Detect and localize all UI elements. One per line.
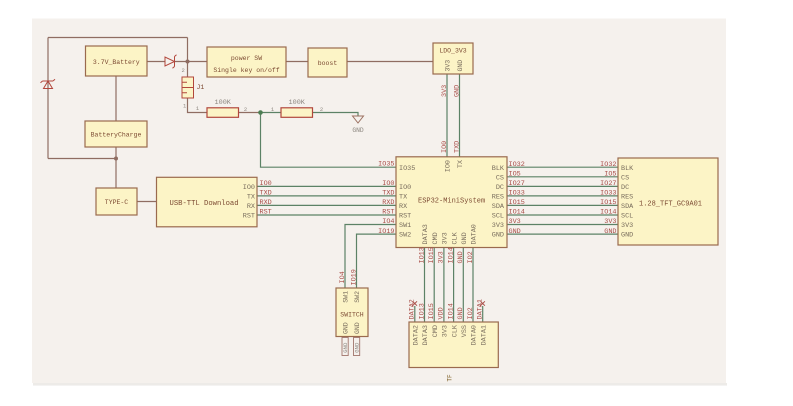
- svg-text:CMD: CMD: [432, 325, 440, 337]
- svg-text:IO0: IO0: [441, 141, 449, 153]
- svg-text:GND: GND: [352, 127, 364, 134]
- global label GND below SWITCH pin 2: [354, 338, 361, 356]
- svg-text:2: 2: [182, 67, 185, 74]
- svg-text:IO5: IO5: [604, 171, 616, 179]
- block TYPE-C: [96, 188, 137, 215]
- svg-text:GND: GND: [457, 307, 465, 319]
- svg-text:IO0: IO0: [260, 180, 272, 188]
- wire net RST: [257, 214, 396, 216]
- svg-text:CS: CS: [621, 174, 629, 182]
- svg-text:BLK: BLK: [621, 165, 634, 173]
- svg-text:TYPE-C: TYPE-C: [105, 199, 129, 206]
- svg-text:TX: TX: [399, 194, 407, 202]
- svg-text:DATA1: DATA1: [480, 325, 488, 345]
- wire boost to LDO_3V3: [347, 61, 433, 63]
- no-connect X at TF DATA2: [413, 301, 417, 305]
- svg-text:IO35: IO35: [378, 161, 394, 169]
- svg-text:CMD: CMD: [432, 232, 440, 244]
- ground symbol: [353, 116, 364, 123]
- svg-text:Single key on/off: Single key on/off: [213, 67, 279, 74]
- svg-text:TXD: TXD: [454, 141, 462, 153]
- wire stub TF DATA2 no-connect: [414, 306, 416, 322]
- wire net GND ESP32 to TF: [462, 248, 464, 323]
- resistor R3: [281, 108, 313, 118]
- svg-text:IO15: IO15: [509, 199, 525, 207]
- diode D1 (zener, left): [41, 79, 56, 88]
- block 3.7V_Battery: [86, 46, 148, 76]
- wire net 3V3 ESP32 to TFT: [507, 224, 618, 226]
- svg-text:SWITCH: SWITCH: [340, 312, 364, 319]
- wire R2 to junction: [239, 112, 261, 114]
- wire J1 pin 1 to resistor R2: [188, 98, 208, 113]
- wire bottom of loop to charge net: [48, 158, 116, 160]
- diode D2 (battery output): [165, 55, 177, 69]
- svg-text:IO27: IO27: [600, 180, 616, 188]
- svg-text:2: 2: [320, 106, 323, 113]
- svg-text:IO13: IO13: [418, 303, 426, 319]
- svg-text:1.28_TFT_GC9A01: 1.28_TFT_GC9A01: [639, 201, 702, 209]
- junction at J1 top node: [186, 60, 190, 64]
- svg-text:RX: RX: [247, 203, 255, 211]
- svg-text:BLK: BLK: [492, 165, 505, 173]
- wire net IO14 ESP32 to TFT: [507, 214, 618, 216]
- wire top loop horizontal: [48, 37, 188, 39]
- svg-text:IO4: IO4: [382, 218, 394, 226]
- svg-text:IO27: IO27: [509, 180, 525, 188]
- svg-text:DATA3: DATA3: [422, 224, 430, 244]
- svg-text:IO13: IO13: [418, 247, 426, 263]
- svg-text:SW1: SW1: [399, 222, 411, 230]
- wire net IO32 ESP32 to TFT: [507, 166, 618, 168]
- svg-text:IO2: IO2: [467, 307, 475, 319]
- wire top loop down to J1 pin 2: [187, 38, 189, 78]
- wire net IO33 ESP32 to TFT: [507, 195, 618, 197]
- svg-text:2: 2: [244, 106, 247, 113]
- svg-text:GND: GND: [604, 228, 616, 236]
- svg-text:100K: 100K: [289, 99, 306, 107]
- block LDO_3V3: [433, 43, 473, 74]
- block BatteryCharge: [85, 121, 147, 147]
- svg-text:DATA0: DATA0: [471, 224, 479, 244]
- svg-text:IO4: IO4: [339, 271, 347, 283]
- wire power SW to boost: [286, 61, 308, 63]
- svg-text:ESP32-MiniSystem: ESP32-MiniSystem: [418, 197, 485, 205]
- svg-text:RST: RST: [399, 213, 411, 221]
- svg-text:CLK: CLK: [451, 231, 459, 244]
- svg-text:IO14: IO14: [447, 247, 455, 263]
- svg-text:IO35: IO35: [399, 165, 415, 173]
- block ESP32-MiniSystem U1: [396, 157, 507, 248]
- svg-text:GND: GND: [621, 232, 633, 240]
- svg-text:GND: GND: [457, 251, 465, 263]
- wire left vertical: [47, 38, 49, 159]
- svg-text:3V3: 3V3: [442, 325, 450, 337]
- svg-text:IO14: IO14: [600, 209, 616, 217]
- wire net GND ESP32 to TFT: [507, 233, 618, 235]
- wire net IO19 ESP32 SW2 to SWITCH: [357, 234, 397, 288]
- svg-text:SW2: SW2: [399, 232, 411, 240]
- wire net IO13 ESP32 to TF: [424, 248, 426, 323]
- wire BatteryCharge to TYPE-C: [115, 147, 117, 188]
- svg-text:GND: GND: [454, 85, 462, 97]
- wire net 3V3 LDO to ESP32: [446, 74, 448, 157]
- wire net IO15 ESP32 to TFT: [507, 204, 618, 206]
- svg-text:TX: TX: [247, 194, 255, 202]
- svg-text:RST: RST: [260, 209, 272, 217]
- svg-text:DATA1: DATA1: [477, 299, 485, 319]
- svg-text:SW1: SW1: [343, 291, 350, 303]
- svg-text:RES: RES: [621, 194, 633, 202]
- svg-text:IO5: IO5: [509, 171, 521, 179]
- svg-text:boost: boost: [318, 60, 338, 67]
- svg-text:power SW: power SW: [231, 55, 262, 62]
- svg-text:CS: CS: [496, 174, 504, 182]
- block TF card: [409, 322, 498, 368]
- svg-text:IO0: IO0: [445, 160, 453, 172]
- svg-text:SDA: SDA: [621, 203, 634, 211]
- no-connect X at TF DATA1: [481, 301, 485, 305]
- svg-text:IO0: IO0: [243, 184, 255, 192]
- svg-text:VSS: VSS: [461, 325, 469, 337]
- svg-text:SCL: SCL: [492, 213, 504, 221]
- svg-text:DATA3: DATA3: [422, 325, 430, 345]
- svg-text:GND: GND: [343, 322, 350, 334]
- svg-text:IO14: IO14: [509, 209, 525, 217]
- wire net RXD: [257, 204, 396, 206]
- svg-text:CLK: CLK: [451, 324, 459, 337]
- svg-text:TF: TF: [447, 374, 454, 382]
- svg-text:3V3: 3V3: [445, 60, 452, 72]
- svg-text:BatteryCharge: BatteryCharge: [91, 132, 142, 139]
- svg-text:100K: 100K: [215, 99, 232, 107]
- svg-text:3V3: 3V3: [621, 222, 633, 230]
- svg-text:GND: GND: [509, 228, 521, 236]
- svg-text:DC: DC: [621, 184, 629, 192]
- wire net IO27 ESP32 to TFT: [507, 185, 618, 187]
- svg-text:IO14: IO14: [447, 303, 455, 319]
- svg-text:RES: RES: [492, 194, 504, 202]
- svg-text:VDD: VDD: [438, 307, 446, 319]
- wire net IO4 ESP32 SW1 to SWITCH: [345, 225, 396, 289]
- block boost: [308, 48, 347, 77]
- svg-text:SCL: SCL: [621, 213, 633, 221]
- junction battery charge net: [114, 157, 118, 161]
- wire net IO14 ESP32 to TF: [453, 248, 455, 323]
- svg-text:3V3: 3V3: [438, 251, 446, 263]
- svg-text:SDA: SDA: [492, 203, 505, 211]
- wire stub TF DATA1 no-connect: [482, 306, 484, 322]
- wire R3 to GND: [313, 113, 359, 117]
- svg-text:3V3: 3V3: [492, 222, 504, 230]
- svg-text:IO33: IO33: [600, 190, 616, 198]
- svg-text:RX: RX: [399, 203, 407, 211]
- svg-text:IO32: IO32: [509, 161, 525, 169]
- svg-text:IO0: IO0: [382, 180, 394, 188]
- svg-text:RXD: RXD: [382, 199, 394, 207]
- svg-text:3.7V_Battery: 3.7V_Battery: [93, 59, 140, 66]
- svg-text:IO15: IO15: [600, 199, 616, 207]
- resistor R2: [207, 108, 239, 118]
- svg-text:RST: RST: [243, 213, 255, 221]
- svg-text:RXD: RXD: [260, 199, 272, 207]
- connector J1: [182, 77, 194, 98]
- svg-text:IO15: IO15: [428, 303, 436, 319]
- svg-text:GND: GND: [342, 342, 349, 353]
- svg-text:DATA0: DATA0: [471, 325, 479, 345]
- svg-text:DATA2: DATA2: [413, 325, 421, 345]
- svg-text:3V3: 3V3: [604, 218, 616, 226]
- svg-text:IO19: IO19: [351, 269, 359, 285]
- svg-text:TXD: TXD: [260, 190, 272, 198]
- wire net IO0 USB-TTL to ESP32: [257, 185, 396, 187]
- svg-text:3V3: 3V3: [442, 232, 450, 244]
- wire net 3V3 ESP32 to TF: [443, 248, 445, 323]
- svg-text:IO19: IO19: [378, 228, 394, 236]
- wire net GND LDO to ESP32: [459, 74, 461, 157]
- block power SW: [207, 47, 286, 77]
- svg-text:J1: J1: [197, 84, 205, 91]
- svg-text:TX: TX: [457, 160, 465, 168]
- junction resistor divider: [258, 110, 263, 115]
- svg-text:IO33: IO33: [509, 190, 525, 198]
- svg-text:USB-TTL Download: USB-TTL Download: [170, 200, 239, 208]
- block USB-TTL Download: [157, 177, 258, 227]
- svg-text:3V3: 3V3: [509, 218, 521, 226]
- svg-text:IO0: IO0: [399, 184, 411, 192]
- wire diode D2 to power SW: [175, 61, 208, 63]
- svg-text:GND: GND: [354, 342, 361, 353]
- svg-text:DATA2: DATA2: [409, 299, 417, 319]
- svg-text:GND: GND: [457, 60, 464, 72]
- wire battery to diode D2: [147, 61, 165, 63]
- svg-text:SW2: SW2: [354, 291, 361, 303]
- wire net IO35 to ESP32: [261, 113, 397, 168]
- svg-text:3V3: 3V3: [441, 85, 449, 97]
- global label GND below SWITCH pin 1: [342, 338, 349, 356]
- svg-text:IO32: IO32: [600, 161, 616, 169]
- svg-text:GND: GND: [492, 232, 504, 240]
- wire net IO15 ESP32 to TF: [433, 248, 435, 323]
- wire junction to resistor R3: [261, 112, 282, 114]
- wire net IO2 ESP32 to TF: [472, 248, 474, 323]
- wire TYPE-C to USB-TTL: [137, 201, 157, 203]
- block SWITCH: [336, 288, 368, 337]
- block 1.28_TFT_GC9A01: [618, 158, 718, 245]
- svg-text:RST: RST: [382, 209, 394, 217]
- svg-text:IO2: IO2: [467, 251, 475, 263]
- wire net TXD: [257, 195, 396, 197]
- wire battery to BatteryCharge: [115, 76, 117, 121]
- svg-text:IO15: IO15: [428, 247, 436, 263]
- svg-text:GND: GND: [354, 322, 361, 334]
- svg-text:LDO_3V3: LDO_3V3: [439, 48, 466, 55]
- svg-text:DC: DC: [496, 184, 504, 192]
- wire net IO5 ESP32 to TFT: [507, 176, 618, 178]
- svg-text:GND: GND: [461, 232, 469, 244]
- svg-text:TXD: TXD: [382, 190, 394, 198]
